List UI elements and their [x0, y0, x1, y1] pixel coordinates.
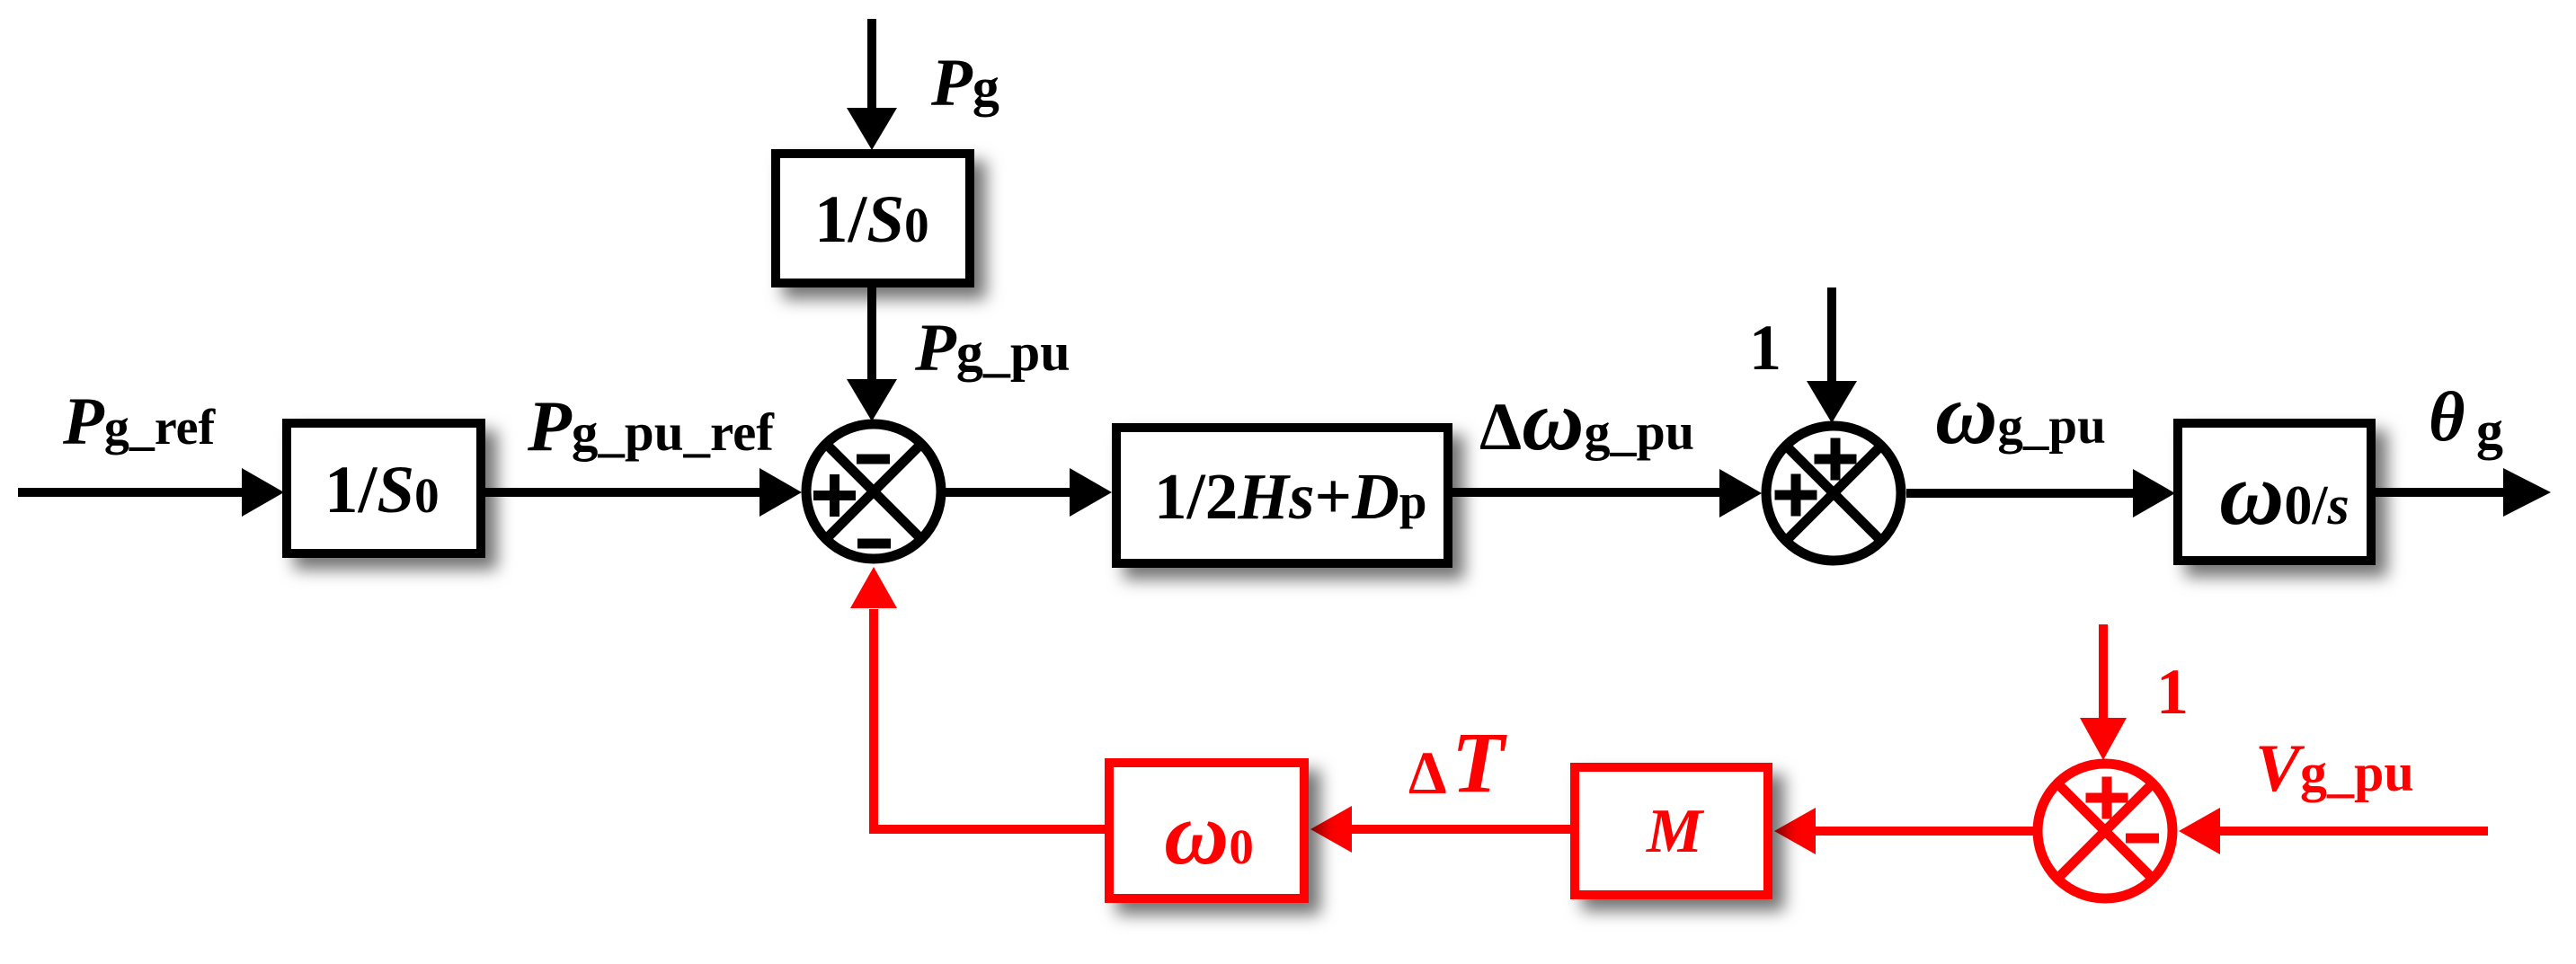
svg-text:Vg_pu: Vg_pu: [2255, 731, 2414, 806]
svg-text:Pg_pu_ref: Pg_pu_ref: [527, 387, 775, 466]
svg-text:Pg_pu: Pg_pu: [914, 311, 1070, 385]
svg-text:Pg_ref: Pg_ref: [62, 385, 217, 459]
svg-text:Δωg_pu: Δωg_pu: [1479, 372, 1694, 468]
svg-text:M: M: [1646, 797, 1705, 866]
svg-text:1: 1: [1749, 312, 1781, 384]
svg-text:1/2Hs+Dp: 1/2Hs+Dp: [1154, 460, 1426, 533]
svg-text:g: g: [2476, 401, 2503, 460]
svg-text:Δ: Δ: [1408, 738, 1447, 807]
svg-text:T: T: [1452, 714, 1507, 810]
svg-text:1: 1: [2156, 656, 2189, 728]
svg-text:θ: θ: [2429, 377, 2465, 455]
svg-text:ωg_pu: ωg_pu: [1935, 366, 2106, 462]
svg-text:Pg: Pg: [930, 46, 999, 120]
